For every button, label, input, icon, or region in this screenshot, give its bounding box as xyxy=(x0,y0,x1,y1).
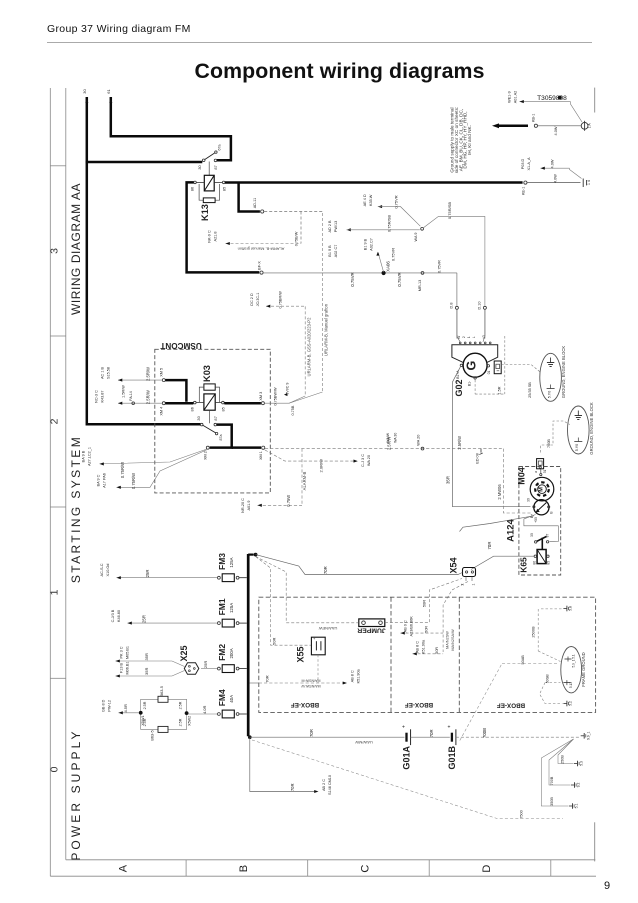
svg-text:31: 31 xyxy=(543,470,547,474)
svg-text:G01A: G01A xyxy=(402,746,412,770)
svg-text:URLARM-B, Manuel grafton: URLARM-B, Manuel grafton xyxy=(324,303,329,356)
svg-text:125A: 125A xyxy=(229,557,234,567)
svg-text:A02.C7: A02.C7 xyxy=(370,238,374,251)
svg-text:200A: 200A xyxy=(229,648,234,658)
svg-text:86: 86 xyxy=(533,561,537,565)
svg-text:1: 1 xyxy=(472,583,476,585)
svg-text:0.75W: 0.75W xyxy=(286,495,291,507)
svg-text:XM 2: XM 2 xyxy=(204,451,208,460)
svg-text:700B: 700B xyxy=(547,439,551,448)
svg-text:ALARM-B: ALARM-B xyxy=(302,471,307,490)
svg-text:35R: 35R xyxy=(144,653,149,660)
svg-text:M05.B1: M05.B1 xyxy=(126,646,130,659)
svg-text:AC 1 B: AC 1 B xyxy=(101,367,105,379)
svg-text:URLARM-B, GSS-A020/223-P2: URLARM-B, GSS-A020/223-P2 xyxy=(306,317,311,377)
svg-text:1 A: 1 A xyxy=(588,123,592,129)
svg-text:1 4: 1 4 xyxy=(587,180,591,185)
svg-text:1: 1 xyxy=(467,336,471,338)
svg-text:ALARM-B, Manual grafton: ALARM-B, Manual grafton xyxy=(238,247,285,252)
svg-text:X55: X55 xyxy=(295,646,305,662)
svg-text:BF-X: BF-X xyxy=(257,261,261,270)
svg-text:MA/N2SW: MA/N2SW xyxy=(445,631,449,649)
svg-text:87: 87 xyxy=(546,534,550,538)
svg-text:86: 86 xyxy=(189,187,194,191)
svg-text:700B: 700B xyxy=(482,728,487,738)
svg-text:A01.A2: A01.A2 xyxy=(514,91,518,103)
svg-text:25R: 25R xyxy=(142,615,147,623)
svg-text:50R: 50R xyxy=(425,626,429,633)
svg-text:B1 9 B: B1 9 B xyxy=(364,238,368,250)
svg-text:MA/N2SA/W: MA/N2SA/W xyxy=(451,629,455,651)
svg-text:X10.Od: X10.Od xyxy=(106,564,110,577)
svg-text:A21.8: A21.8 xyxy=(214,232,218,242)
svg-text:X1-A_A: X1-A_A xyxy=(527,157,531,171)
svg-text:X54: X54 xyxy=(449,557,459,573)
svg-text:G02: G02 xyxy=(454,379,464,396)
svg-text:JUMPER: JUMPER xyxy=(357,627,385,634)
svg-text:5.13: 5.13 xyxy=(569,682,573,688)
svg-text:POWER SUPPLY: POWER SUPPLY xyxy=(69,728,83,860)
svg-text:+50: +50 xyxy=(534,517,538,523)
svg-text:NR-20 C: NR-20 C xyxy=(241,498,245,513)
svg-text:70R: 70R xyxy=(290,783,295,791)
svg-text:5.1: 5.1 xyxy=(571,654,575,659)
svg-text:GB 8 D: GB 8 D xyxy=(102,699,106,712)
svg-text:B63-5: B63-5 xyxy=(159,686,164,696)
svg-text:PW-12: PW-12 xyxy=(108,700,112,712)
svg-text:0.75VR: 0.75VR xyxy=(397,272,402,286)
svg-text:JC/JC-1: JC/JC-1 xyxy=(256,293,260,307)
svg-text:40A: 40A xyxy=(229,695,234,703)
svg-text:K65: K65 xyxy=(518,557,528,573)
svg-text:125A: 125A xyxy=(229,603,234,613)
svg-text:25R: 25R xyxy=(145,569,150,577)
svg-text:A02 C7: A02 C7 xyxy=(334,245,338,258)
svg-text:D.8: D.8 xyxy=(449,303,453,309)
svg-text:GROUND, ENGINE BLOCK: GROUND, ENGINE BLOCK xyxy=(589,402,594,455)
svg-text:FM1: FM1 xyxy=(217,598,227,615)
svg-text:5.9_1: 5.9_1 xyxy=(571,659,575,667)
svg-text:XA06: XA06 xyxy=(386,261,391,272)
svg-text:D: D xyxy=(481,865,493,873)
svg-text:PA-14: PA-14 xyxy=(129,391,133,401)
svg-text:GROUND, ENGINE BLOCK: GROUND, ENGINE BLOCK xyxy=(561,346,566,399)
svg-text:F13 B: F13 B xyxy=(120,662,124,673)
svg-text:87: 87 xyxy=(213,165,218,169)
svg-text:5.Y0: 5.Y0 xyxy=(575,444,579,451)
svg-text:30: 30 xyxy=(526,498,530,502)
svg-text:AD 2 B: AD 2 B xyxy=(328,220,332,232)
svg-text:0.75R/SB: 0.75R/SB xyxy=(447,202,452,219)
svg-text:35R: 35R xyxy=(446,476,451,484)
svg-text:X5W1: X5W1 xyxy=(141,715,145,725)
svg-text:30: 30 xyxy=(196,415,201,420)
svg-text:WA 9: WA 9 xyxy=(414,233,418,242)
svg-text:350B: 350B xyxy=(550,797,554,806)
svg-text:a: a xyxy=(534,471,538,473)
svg-text:AC-S-C: AC-S-C xyxy=(100,563,104,576)
svg-text:AE 4 D: AE 4 D xyxy=(363,194,367,206)
svg-text:9.9_1: 9.9_1 xyxy=(586,731,590,740)
svg-text:0.75B: 0.75B xyxy=(291,405,295,415)
svg-text:WIRING DIAGRAM AA: WIRING DIAGRAM AA xyxy=(69,183,83,315)
svg-text:AB 8 C: AB 8 C xyxy=(415,641,419,653)
svg-text:FM4: FM4 xyxy=(217,689,227,706)
svg-text:WA 20: WA 20 xyxy=(367,455,371,466)
svg-text:MA/NSW-W: MA/NSW-W xyxy=(301,684,321,688)
svg-text:2.5R: 2.5R xyxy=(143,701,147,709)
svg-text:K46.80: K46.80 xyxy=(117,610,121,622)
svg-text:D.10: D.10 xyxy=(477,301,481,309)
svg-text:700B: 700B xyxy=(550,776,554,785)
svg-text:0.75B/W: 0.75B/W xyxy=(295,231,299,246)
svg-text:ED 08: ED 08 xyxy=(475,453,479,463)
svg-text:A27.LC2_1: A27.LC2_1 xyxy=(88,447,92,466)
svg-text:AD-11: AD-11 xyxy=(253,198,257,208)
svg-text:L: L xyxy=(472,336,476,338)
svg-text:NC-3 C: NC-3 C xyxy=(95,390,99,403)
svg-text:70R: 70R xyxy=(429,729,434,737)
svg-text:AB 0 C: AB 0 C xyxy=(403,620,407,632)
svg-text:S15.58: S15.58 xyxy=(107,367,111,379)
svg-text:XM 4: XM 4 xyxy=(159,407,163,416)
svg-text:4.0W: 4.0W xyxy=(554,126,558,135)
svg-text:30: 30 xyxy=(197,165,202,170)
svg-text:B63-5: B63-5 xyxy=(150,730,155,740)
svg-text:0: 0 xyxy=(49,766,61,772)
svg-text:5.8: 5.8 xyxy=(569,606,573,611)
svg-text:B: B xyxy=(550,511,554,514)
svg-text:5.1: 5.1 xyxy=(574,804,578,809)
svg-text:B1 9 B: B1 9 B xyxy=(328,245,332,257)
svg-text:0.75VR: 0.75VR xyxy=(393,195,398,208)
svg-text:AB 8 C: AB 8 C xyxy=(350,670,354,682)
svg-text:4.0R: 4.0R xyxy=(202,705,207,714)
svg-text:2.0R/W: 2.0R/W xyxy=(318,459,323,473)
svg-text:NK-9 C: NK-9 C xyxy=(208,230,212,243)
svg-text:50AB: 50AB xyxy=(521,655,525,665)
svg-text:A01.9: A01.9 xyxy=(247,501,251,511)
svg-text:86: 86 xyxy=(189,407,194,411)
svg-text:C-J 3 C: C-J 3 C xyxy=(361,454,365,467)
svg-text:0.75R/W: 0.75R/W xyxy=(131,473,136,489)
svg-text:IH, KI and NK.: IH, KI and NK. xyxy=(467,125,472,155)
svg-text:M: M xyxy=(538,487,544,492)
svg-text:25R: 25R xyxy=(203,661,208,668)
svg-text:4.0W: 4.0W xyxy=(554,174,558,183)
svg-text:WA 20: WA 20 xyxy=(416,435,420,446)
svg-text:35R: 35R xyxy=(144,668,149,675)
svg-text:G01B: G01B xyxy=(447,746,457,770)
svg-text:K43.87: K43.87 xyxy=(101,390,105,402)
svg-text:30: 30 xyxy=(82,89,87,94)
svg-text:25/35 SB: 25/35 SB xyxy=(528,382,532,398)
svg-text:S146 CM10: S146 CM10 xyxy=(328,775,332,795)
svg-text:USMCONT: USMCONT xyxy=(160,341,201,350)
svg-text:MR-13: MR-13 xyxy=(418,280,422,291)
svg-text:K35.W: K35.W xyxy=(369,194,373,206)
svg-text:KE-1: KE-1 xyxy=(521,187,525,195)
svg-text:K13: K13 xyxy=(200,204,210,221)
svg-text:4.5R: 4.5R xyxy=(123,704,128,713)
svg-text:BBOX-EF: BBOX-EF xyxy=(497,702,525,709)
svg-text:0.75VR: 0.75VR xyxy=(391,248,396,261)
svg-text:70R: 70R xyxy=(309,729,314,737)
svg-text:1: 1 xyxy=(49,589,61,595)
svg-text:5.Y0: 5.Y0 xyxy=(548,391,552,398)
svg-text:9.2: 9.2 xyxy=(576,783,580,788)
svg-text:2.5R: 2.5R xyxy=(179,701,183,709)
svg-text:70R: 70R xyxy=(265,675,270,682)
svg-text:K51.90a: K51.90a xyxy=(356,668,360,683)
svg-text:2.5R/W: 2.5R/W xyxy=(145,390,150,404)
svg-text:M06.B1: M06.B1 xyxy=(126,661,130,674)
svg-text:85: 85 xyxy=(221,187,226,191)
svg-text:2500B: 2500B xyxy=(530,626,535,638)
svg-text:X25: X25 xyxy=(179,645,189,661)
svg-text:7500: 7500 xyxy=(520,810,524,818)
svg-text:T3059808: T3059808 xyxy=(537,95,567,102)
svg-text:FM3: FM3 xyxy=(217,553,227,570)
svg-text:P03 D: P03 D xyxy=(521,158,525,169)
svg-text:PW/13: PW/13 xyxy=(334,221,338,232)
svg-text:50GB: 50GB xyxy=(546,674,550,684)
svg-text:UAA/NEW: UAA/NEW xyxy=(318,626,337,631)
svg-text:BA 9 C: BA 9 C xyxy=(97,474,101,486)
svg-text:A23/B6.86K: A23/B6.86K xyxy=(409,616,413,637)
svg-text:4.0W: 4.0W xyxy=(551,159,555,168)
svg-text:FM2: FM2 xyxy=(217,644,227,661)
svg-text:01: 01 xyxy=(487,371,491,375)
svg-text:BBOX-EF: BBOX-EF xyxy=(405,701,433,708)
svg-text:0.75R/W: 0.75R/W xyxy=(120,462,125,478)
svg-text:2.5R/W: 2.5R/W xyxy=(457,436,462,450)
svg-text:85: 85 xyxy=(547,561,551,565)
svg-text:G: G xyxy=(465,361,479,371)
svg-text:5.2: 5.2 xyxy=(569,701,573,706)
svg-text:5.3: 5.3 xyxy=(579,761,583,766)
svg-text:50R: 50R xyxy=(435,647,439,654)
svg-text:0.75BR/W: 0.75BR/W xyxy=(279,291,283,309)
svg-text:87: 87 xyxy=(213,416,218,420)
svg-text:MA/NSW-M: MA/NSW-M xyxy=(302,678,321,682)
svg-text:C: C xyxy=(360,865,372,873)
svg-text:M04: M04 xyxy=(517,467,527,485)
svg-text:2.5R/W: 2.5R/W xyxy=(145,367,150,381)
svg-text:JVI/C 9: JVI/C 9 xyxy=(286,383,290,395)
svg-text:2.5R: 2.5R xyxy=(179,718,183,726)
svg-text:9: 9 xyxy=(604,880,610,892)
svg-text:0.75VR: 0.75VR xyxy=(350,272,355,286)
svg-text:BBOX-EF: BBOX-EF xyxy=(291,701,319,708)
svg-text:+: + xyxy=(447,724,450,730)
svg-text:85: 85 xyxy=(221,407,226,411)
svg-text:2: 2 xyxy=(49,418,61,424)
svg-text:+: + xyxy=(313,637,316,641)
svg-text:K51.90a: K51.90a xyxy=(421,639,425,654)
svg-text:70R: 70R xyxy=(323,566,328,574)
svg-text:1.5R: 1.5R xyxy=(498,386,502,394)
svg-text:61: 61 xyxy=(106,89,111,94)
svg-text:2 MW06: 2 MW06 xyxy=(497,484,502,500)
svg-text:WE1-9: WE1-9 xyxy=(508,91,512,103)
svg-text:A124: A124 xyxy=(505,518,516,541)
svg-text:XM 5: XM 5 xyxy=(159,368,163,377)
svg-text:WA 30: WA 30 xyxy=(394,433,398,443)
svg-text:0.75BW/W: 0.75BW/W xyxy=(274,387,278,406)
svg-text:X5W2: X5W2 xyxy=(188,716,192,726)
svg-text:1.5R/W: 1.5R/W xyxy=(122,385,126,398)
svg-text:AB 2 C: AB 2 C xyxy=(322,779,326,791)
svg-text:WA/W: WA/W xyxy=(386,432,390,442)
svg-text:KB-1: KB-1 xyxy=(532,114,536,122)
svg-text:B: B xyxy=(238,865,250,872)
svg-text:UAW/MW: UAW/MW xyxy=(355,740,373,745)
svg-text:+: + xyxy=(402,724,405,730)
svg-text:PK 3 C: PK 3 C xyxy=(120,646,124,658)
svg-text:XM 3: XM 3 xyxy=(259,392,263,401)
svg-text:K03: K03 xyxy=(202,365,212,382)
svg-text:3: 3 xyxy=(49,248,61,254)
svg-text:2: 2 xyxy=(462,336,466,338)
svg-text:B1-: B1- xyxy=(468,381,472,386)
svg-text:87a: 87a xyxy=(219,435,223,441)
svg-text:70R: 70R xyxy=(487,542,492,550)
svg-text:XM 1: XM 1 xyxy=(259,451,263,460)
svg-text:0.75R/SB: 0.75R/SB xyxy=(387,215,392,232)
svg-text:250B: 250B xyxy=(561,755,565,764)
svg-text:C-J/3 B: C-J/3 B xyxy=(111,609,115,622)
svg-text:50R: 50R xyxy=(272,638,277,645)
svg-text:DC 2 D: DC 2 D xyxy=(250,293,254,306)
svg-text:0.75VR: 0.75VR xyxy=(438,260,442,273)
svg-text:FRAME GROUND: FRAME GROUND xyxy=(581,652,586,686)
svg-text:30: 30 xyxy=(530,533,534,537)
svg-text:A17 PA6: A17 PA6 xyxy=(103,473,107,488)
svg-text:BA 9 B: BA 9 B xyxy=(82,450,86,462)
svg-text:50R: 50R xyxy=(421,600,426,607)
svg-text:A: A xyxy=(118,864,130,872)
svg-text:67a: 67a xyxy=(218,145,222,151)
